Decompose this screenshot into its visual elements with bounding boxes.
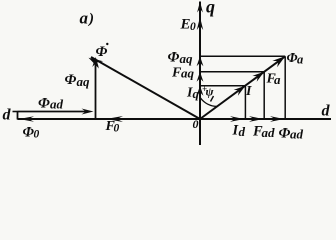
vector Phi_a / F_a / I (diagonal up-right) <box>200 56 285 119</box>
svg-text:a: a <box>297 53 303 67</box>
svg-text:0: 0 <box>193 117 199 131</box>
arrowhead Phi_aq left <box>92 57 98 67</box>
vector Phi_ad (horizontal, pointing right) <box>18 111 88 113</box>
vertical drop from I tip <box>244 86 246 119</box>
vector Phi_aq (left, vertical component) <box>95 59 97 120</box>
axis d (horizontal) <box>18 118 332 120</box>
connector stub from label d to tick <box>13 111 18 113</box>
svg-text:q: q <box>206 0 215 17</box>
svg-text:ψ: ψ <box>206 85 215 99</box>
svg-text:Φ: Φ <box>96 44 108 60</box>
svg-text:q: q <box>193 86 200 101</box>
svg-text:Φ: Φ <box>287 51 298 66</box>
arrowhead axis q <box>197 2 203 13</box>
svg-text:): ) <box>87 11 94 27</box>
svg-text:ad: ad <box>50 97 64 112</box>
angle tick <box>211 96 214 102</box>
svg-text:Φ: Φ <box>279 126 291 142</box>
svg-text:Φ: Φ <box>168 50 180 66</box>
svg-text:ad: ad <box>262 125 276 140</box>
svg-text:a: a <box>80 9 89 28</box>
svg-text:d: d <box>239 124 246 139</box>
tick arrowhead I_q on q axis <box>197 86 204 96</box>
svg-text:ad: ad <box>290 127 304 142</box>
axis q (vertical) <box>199 2 201 146</box>
vertical drop from F_a tip <box>263 72 265 119</box>
svg-text:E: E <box>180 17 191 33</box>
svg-text:a: a <box>274 72 281 87</box>
svg-text:aq: aq <box>181 66 195 81</box>
vector Phi0 (field flux, pointing left on axis) <box>19 116 34 122</box>
arrowhead Phi_a <box>272 56 285 67</box>
svg-text:0: 0 <box>34 129 40 141</box>
tick at Phi0 tip <box>17 111 19 120</box>
svg-text:Φ: Φ <box>65 72 77 88</box>
arrowhead I <box>234 86 246 96</box>
vector Phi (resultant flux, diagonal up-left) <box>91 57 200 119</box>
vector I_d arrowhead on d axis <box>230 116 244 122</box>
construction line F_aq level <box>200 71 264 73</box>
vertical drop from Phi_a tip <box>284 56 286 119</box>
vector F0 (field MMF, pointing left on axis) <box>106 116 123 122</box>
construction line Phi_aq level <box>200 55 285 57</box>
tick arrowhead Phi_aq on q axis <box>197 56 204 66</box>
svg-text:aq: aq <box>180 51 194 66</box>
tick arrowhead F_aq on q axis <box>197 72 204 82</box>
vector E0 arrowhead on q axis <box>197 17 203 30</box>
svg-text:aq: aq <box>77 74 91 89</box>
vector F_ad arrowhead on d axis <box>249 116 263 122</box>
svg-text:d: d <box>3 107 12 124</box>
svg-text:0: 0 <box>114 123 120 135</box>
arrowhead F_a <box>252 72 264 82</box>
vector Phi_ad arrowhead on d axis <box>270 116 284 122</box>
svg-text:d: d <box>322 103 331 120</box>
arrowhead Phi_ad <box>82 109 94 115</box>
svg-text:Φ: Φ <box>38 96 50 112</box>
angle arc psi between q axis and I <box>201 98 218 106</box>
svg-text:0: 0 <box>190 21 196 33</box>
arrowhead Phi <box>89 58 104 69</box>
construction line I_q level <box>200 85 245 87</box>
